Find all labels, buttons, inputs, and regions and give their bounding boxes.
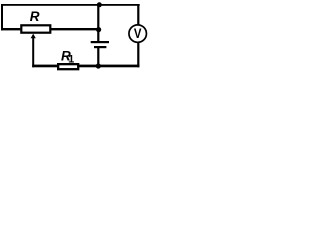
svg-text:V: V <box>134 26 142 41</box>
svg-text:R: R <box>30 9 40 24</box>
svg-text:1: 1 <box>68 53 74 65</box>
